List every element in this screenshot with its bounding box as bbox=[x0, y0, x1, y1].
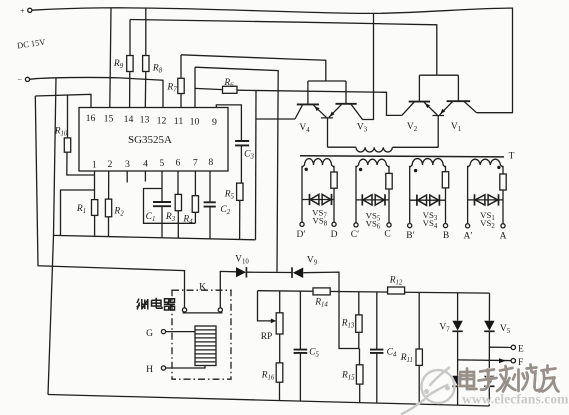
resistor R16 bbox=[279, 382, 281, 400]
wire relay feed left rail bbox=[35, 96, 184, 308]
node V4/V3 emitter junction bbox=[321, 118, 333, 147]
wire VS5/VS6 left lead bbox=[355, 166, 357, 223]
resistor R14 bbox=[313, 288, 330, 295]
resistor R8 bbox=[144, 8, 147, 108]
terminal F bbox=[458, 359, 511, 362]
inductor secondary winding Td bbox=[302, 159, 334, 168]
resistor R4 bbox=[194, 171, 196, 223]
svg-text:1: 1 bbox=[92, 160, 97, 171]
resistor R1 bbox=[94, 171, 96, 236]
wire ground left rail bbox=[48, 78, 56, 395]
svg-text:+: + bbox=[20, 7, 25, 16]
diode V8 bbox=[452, 376, 462, 386]
svg-text:www.elecfans.com: www.elecfans.com bbox=[462, 392, 569, 407]
arrow V3 emitter bbox=[330, 112, 335, 117]
terminal E bbox=[489, 346, 511, 348]
wire - line to pin12 bbox=[30, 77, 163, 107]
capacitor C5 bbox=[299, 291, 301, 401]
wire pin10 to V10/V9 junction bbox=[195, 67, 278, 272]
wire R9 top rail to V2/V1 gate bbox=[130, 20, 437, 76]
transistor V2 bbox=[409, 101, 430, 103]
diode pair VS1/VS2 bbox=[468, 199, 503, 201]
wire pin16 feed bbox=[35, 94, 91, 107]
wire V5 column bbox=[488, 293, 490, 406]
wire K right contact to V10 bbox=[220, 271, 236, 307]
svg-text:12: 12 bbox=[157, 115, 167, 126]
svg-text:D′: D′ bbox=[297, 230, 306, 240]
arrow V2 emitter bbox=[425, 103, 430, 108]
inductor primary winding bbox=[328, 146, 357, 148]
svg-text:16: 16 bbox=[86, 113, 96, 124]
diode pair VS3/VS4 bbox=[410, 199, 446, 201]
wire bottom ground bus bbox=[48, 395, 489, 407]
resistor R5 bbox=[239, 200, 241, 239]
resistor R7 bbox=[180, 55, 182, 108]
svg-text:SG3525A: SG3525A bbox=[128, 134, 172, 146]
wire pin10 riser bbox=[194, 67, 196, 107]
diode pair VS5/VS6 bbox=[356, 199, 389, 201]
inductor secondary winding Tb bbox=[410, 159, 446, 168]
watermark logo bbox=[401, 367, 455, 415]
contact K circles bbox=[182, 308, 186, 312]
diode V6 bbox=[484, 376, 494, 386]
svg-text:C: C bbox=[384, 230, 390, 240]
terminal circles VS5/VS6 bbox=[354, 223, 358, 227]
transistor V4 bbox=[297, 103, 319, 105]
transistor V1 bbox=[447, 100, 471, 102]
diode V5 bbox=[484, 321, 494, 331]
terminal G bbox=[161, 330, 165, 334]
wire VS7/VS8 left lead bbox=[301, 166, 303, 222]
svg-text:−: − bbox=[18, 76, 23, 85]
arrow V1 emitter bbox=[440, 109, 445, 114]
resistor R2 bbox=[108, 171, 110, 237]
transformer core T bbox=[300, 156, 504, 157]
resistor R12 bbox=[388, 287, 405, 294]
wire V4/V3 gate box bbox=[308, 81, 346, 104]
wire R1 bypass loop bbox=[61, 190, 95, 236]
wire R6 junction drop to mid bus bbox=[255, 91, 258, 240]
resistor R6 bbox=[223, 86, 238, 93]
svg-text:10: 10 bbox=[190, 116, 200, 127]
svg-text:3: 3 bbox=[125, 159, 130, 170]
svg-text:RP: RP bbox=[261, 332, 273, 342]
pin4 stub bbox=[144, 171, 146, 182]
svg-text:4: 4 bbox=[143, 158, 148, 169]
wire pin9 to C3 bbox=[216, 105, 241, 141]
capacitor C2 bbox=[209, 171, 211, 239]
svg-text:E: E bbox=[518, 345, 524, 355]
arrow V4 emitter bbox=[315, 106, 320, 111]
svg-text:C′: C′ bbox=[351, 230, 359, 240]
diode V9 bbox=[291, 267, 293, 278]
wire R6 branch bbox=[195, 88, 402, 115]
svg-text:F: F bbox=[518, 358, 523, 368]
svg-text:T: T bbox=[509, 152, 515, 162]
svg-text:2: 2 bbox=[108, 159, 113, 170]
svg-text:G: G bbox=[146, 329, 153, 339]
svg-text:5: 5 bbox=[159, 158, 164, 169]
resistor R11 bbox=[418, 292, 420, 404]
pin3 stub bbox=[126, 171, 128, 183]
inductor secondary winding Tc bbox=[356, 159, 389, 167]
inductor secondary winding Ta bbox=[468, 159, 503, 167]
resistor R13 bbox=[358, 292, 360, 349]
node V2/V1 emitter junction bbox=[433, 116, 445, 148]
terminal + bbox=[28, 8, 32, 12]
resistor VS7/VS8 damping bbox=[333, 166, 335, 222]
wire C1 loop bbox=[144, 189, 196, 224]
wire V2/V1 gate box bbox=[419, 75, 458, 101]
relay K dash-dot box bbox=[172, 290, 231, 379]
wire V9 to R13/R15 node bbox=[303, 272, 359, 348]
svg-text:6: 6 bbox=[175, 158, 180, 169]
terminal circles VS1/VS2 bbox=[466, 224, 470, 228]
wire V7 column bbox=[457, 293, 459, 405]
terminal - bbox=[25, 77, 29, 81]
svg-text:11: 11 bbox=[174, 116, 184, 127]
svg-text:13: 13 bbox=[140, 115, 150, 126]
contact K bar bbox=[183, 312, 223, 314]
wire V10 to V9 bbox=[246, 271, 292, 273]
potentiometer RP bbox=[279, 291, 281, 363]
terminal circles VS3/VS4 bbox=[408, 224, 412, 228]
svg-text:15: 15 bbox=[104, 114, 114, 125]
label relay 继电器 bbox=[137, 298, 176, 310]
svg-text:8: 8 bbox=[208, 157, 213, 168]
wire VS1/VS2 left lead bbox=[467, 166, 469, 224]
svg-text:B′: B′ bbox=[406, 231, 414, 241]
resistor R15 bbox=[359, 349, 361, 403]
svg-text:H: H bbox=[146, 365, 153, 375]
svg-text:14: 14 bbox=[124, 114, 134, 125]
svg-text:K: K bbox=[199, 283, 206, 293]
svg-text:A′: A′ bbox=[464, 232, 473, 242]
resistor R10 bbox=[67, 95, 95, 175]
svg-text:9: 9 bbox=[212, 117, 217, 128]
svg-text:D: D bbox=[331, 230, 338, 240]
relay coil bbox=[195, 326, 216, 366]
diode pair VS7/VS8 bbox=[302, 199, 334, 201]
wire R7 to V4/V3 gate bbox=[181, 55, 326, 81]
wire V4 source branch bbox=[256, 118, 295, 120]
terminal circles VS7/VS8 bbox=[300, 222, 304, 226]
svg-text:B: B bbox=[443, 231, 449, 241]
op-amp U1 SG3525A body bbox=[79, 108, 228, 172]
wire lower main rail bbox=[258, 291, 490, 293]
resistor R9 bbox=[129, 20, 131, 108]
resistor VS3/VS4 damping bbox=[445, 166, 447, 224]
svg-text:A: A bbox=[500, 232, 507, 242]
diode V10 bbox=[236, 267, 246, 277]
capacitor C4 bbox=[376, 292, 378, 403]
resistor VS1/VS2 damping bbox=[502, 166, 504, 224]
wire mid ground bus bbox=[54, 235, 256, 239]
wire RP wiper bbox=[258, 291, 272, 321]
capacitor C3 bbox=[240, 146, 242, 184]
resistor VS5/VS6 damping bbox=[388, 166, 390, 223]
wire pin15 to +rail bbox=[110, 8, 111, 108]
terminal H bbox=[161, 366, 165, 370]
wire VS3/VS4 left lead bbox=[409, 166, 411, 224]
svg-text:7: 7 bbox=[193, 157, 198, 168]
diode V7 bbox=[452, 321, 462, 331]
resistor R3 bbox=[177, 171, 179, 238]
watermark text dianzifashaoyou bbox=[460, 365, 559, 392]
capacitor C1 column pin5 bbox=[161, 171, 163, 238]
wire +15V rail bbox=[32, 8, 513, 113]
transistor V3 bbox=[336, 103, 357, 105]
